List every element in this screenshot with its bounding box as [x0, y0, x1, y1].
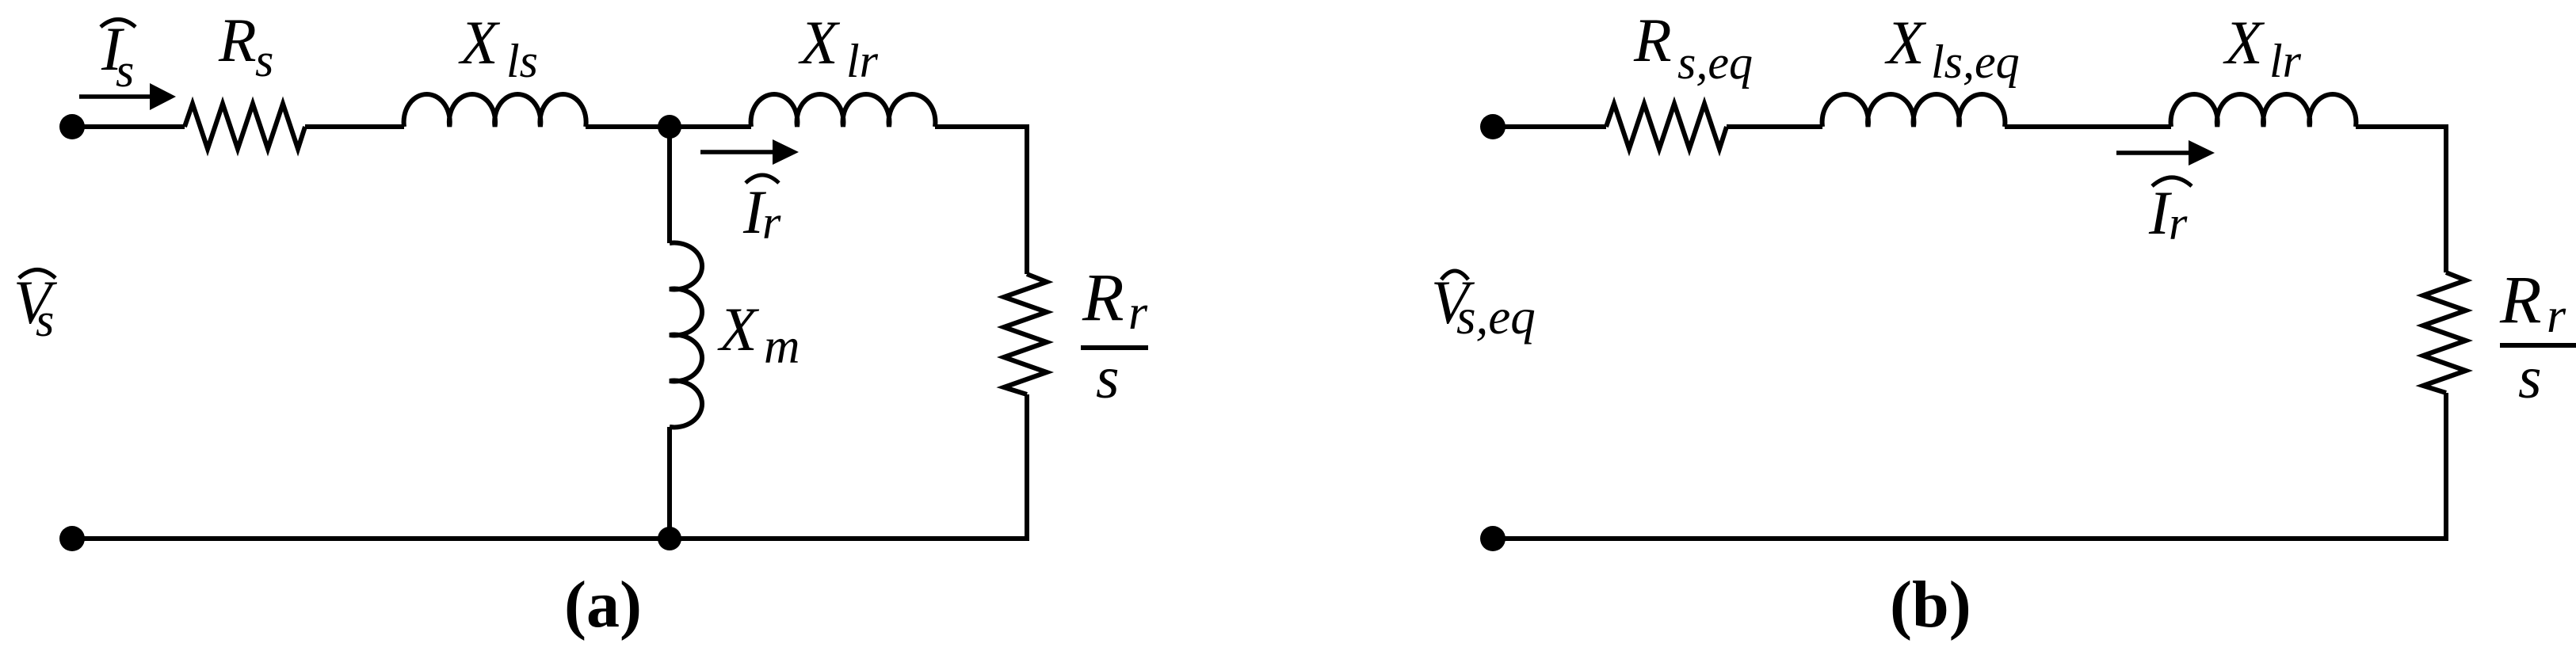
svg-text:X: X	[717, 295, 760, 364]
svg-text:s: s	[36, 294, 54, 346]
svg-text:R: R	[1082, 259, 1124, 335]
svg-text:lr: lr	[2269, 35, 2302, 87]
svg-text:X: X	[458, 8, 501, 77]
svg-text:r: r	[2547, 289, 2566, 343]
svg-text:s: s	[255, 34, 273, 86]
svg-text:ls,eq: ls,eq	[1931, 36, 2020, 88]
svg-text:s: s	[1096, 345, 1120, 411]
svg-text:R: R	[218, 6, 257, 74]
svg-text:s,eq: s,eq	[1677, 36, 1753, 89]
svg-text:s: s	[2518, 345, 2542, 411]
svg-text:ls: ls	[506, 35, 538, 87]
svg-text:r: r	[762, 196, 781, 249]
svg-text:R: R	[2499, 261, 2542, 337]
svg-text:r: r	[2169, 197, 2188, 249]
svg-text:X: X	[798, 8, 841, 77]
svg-text:R: R	[1633, 6, 1672, 74]
svg-text:r: r	[1128, 286, 1148, 340]
svg-text:lr: lr	[846, 35, 879, 87]
svg-text:(b): (b)	[1890, 568, 1971, 642]
svg-text:m: m	[764, 318, 800, 374]
svg-text:X: X	[2223, 8, 2265, 77]
svg-text:s: s	[116, 44, 134, 97]
svg-text:(a): (a)	[564, 568, 642, 642]
svg-text:s,eq: s,eq	[1456, 289, 1536, 345]
svg-text:X: X	[1884, 8, 1927, 77]
